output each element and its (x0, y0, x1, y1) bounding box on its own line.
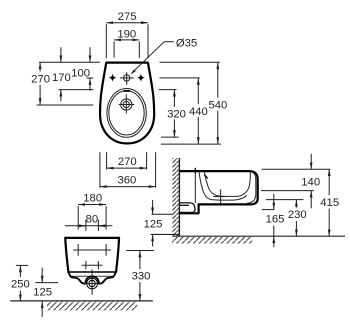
svg-text:320: 320 (167, 108, 186, 120)
svg-text:190: 190 (117, 29, 136, 41)
dim 330 upper segment (139, 251, 141, 270)
dim 190 line (114, 39, 139, 41)
svg-text:170: 170 (52, 72, 71, 84)
bottom extension line inner-left (270) (106, 152, 108, 169)
front view bottom edge (68, 271, 116, 273)
dim 440 lower segment (197, 117, 199, 144)
dim 415 upper segment (328, 169, 330, 195)
faucet hole circle (124, 75, 130, 81)
dim 250 upper segment (19, 265, 21, 277)
side floor hatching (172, 237, 253, 244)
fixing hole right (4-point star) (138, 75, 144, 81)
dim 165 mid segment (273, 226, 275, 237)
dim 125 (wall) upper arrow (152, 200, 154, 214)
dim 360 line (100, 186, 156, 188)
wall hatching (172, 158, 179, 237)
side floor line left of wall (151, 233, 180, 235)
drain cross vertical (side view) (220, 189, 222, 204)
dim 330 extension line (126, 250, 154, 252)
drain cap horizontal centerline (84, 283, 99, 285)
svg-text:100: 100 (71, 68, 90, 80)
dim 330 lower segment (139, 282, 141, 301)
svg-text:Ø35: Ø35 (176, 38, 197, 50)
dim 140 upper arrow (310, 154, 312, 169)
front view right side (116, 238, 119, 272)
dim 165 lower arrow (273, 236, 275, 247)
svg-text:275: 275 (118, 11, 137, 23)
side floor line (173, 235, 345, 237)
bowl rim inner ellipse (109, 91, 144, 135)
svg-text:180: 180 (83, 192, 102, 204)
svg-text:250: 250 (11, 279, 30, 291)
skirt inner edge line (71, 275, 114, 277)
dim 275 extension line right (147, 24, 149, 58)
wall line (178, 158, 180, 237)
svg-text:270: 270 (118, 156, 137, 168)
dim 180 extension left (77, 206, 79, 230)
drain cap vertical centerline (91, 269, 93, 295)
svg-text:125: 125 (33, 286, 52, 298)
dim 275 line (106, 22, 148, 24)
drain target outer circle (121, 99, 132, 110)
svg-text:230: 230 (288, 209, 307, 221)
svg-text:270: 270 (31, 73, 50, 85)
dim 540 lower segment (217, 111, 219, 144)
left extension stub at faucet level (87, 77, 94, 79)
dim 80 left arrow (78, 225, 86, 227)
svg-text:440: 440 (189, 106, 208, 118)
dim 170 lower arrow (60, 90, 62, 102)
dim 270 (left) lower segment (39, 85, 41, 105)
dim 270 (bottom) line (107, 167, 147, 169)
svg-text:165: 165 (266, 214, 285, 226)
callout leader tail (164, 41, 174, 43)
right extension line at bowl-top level (159, 89, 177, 91)
dim 250 extension stub (16, 264, 28, 266)
inner front face line (247, 172, 256, 204)
supply pipe vertical line (194, 173, 196, 203)
trap cover inner line (180, 204, 189, 206)
left extension line at top edge level (39, 61, 100, 63)
overflow slanted tick (204, 175, 208, 179)
dim 440 upper segment (197, 78, 199, 104)
dim 190 extension line left (113, 41, 115, 57)
drain target horizontal centerline (119, 104, 134, 106)
dim 125 (front) extension line (35, 282, 58, 284)
dim 415 lower segment (328, 209, 330, 237)
front floor line (10, 300, 153, 302)
fixing holes upper rail line (73, 249, 111, 251)
front floor hatching (47, 302, 137, 311)
waterline tick (thick dash at bowl top) (124, 90, 130, 92)
right extension line at body-bottom level (161, 143, 221, 145)
dim 100 upper arrow (89, 47, 91, 62)
faucet hole horizontal centerline (120, 77, 134, 79)
svg-text:330: 330 (132, 271, 151, 283)
bidet body outline (plan view) (100, 63, 154, 144)
extension line at trap level (165 top) (262, 209, 274, 211)
dim 270 (left) upper segment (39, 62, 41, 71)
fixing hole upper-right tick (105, 244, 107, 256)
dim 80 right arrow (98, 225, 106, 227)
bottom extension line far-left (360) (99, 152, 101, 188)
basin channel front line (204, 171, 250, 196)
drain target vertical centerline (125, 94, 127, 113)
faucet hole tick (side view) (194, 168, 196, 174)
basin channel rear line (199, 171, 247, 200)
dim 165 upper arrow (273, 194, 275, 210)
left extension line at drain level (37, 104, 94, 106)
svg-text:80: 80 (86, 213, 99, 225)
right extension line at faucet level (160, 77, 200, 79)
dim 230 lower segment (295, 221, 297, 236)
faucet hole vertical centerline (126, 72, 128, 85)
svg-text:140: 140 (301, 176, 320, 188)
dim 80 line (65, 225, 113, 227)
dim 80 extension right (97, 220, 99, 231)
bottom extension line inner-right (270) (146, 152, 148, 169)
trap cover (side view) (180, 203, 195, 213)
dim 180 line (78, 204, 106, 206)
dim 170 upper arrow (60, 47, 62, 62)
bottom extension line far-right (360) (155, 152, 157, 188)
extension line at rim level (262, 168, 331, 170)
dim 190 extension line right (138, 41, 140, 57)
fixing hole left (4-point star) (110, 75, 116, 81)
small hole right tick (97, 261, 99, 269)
bowl rim outer ellipse (107, 89, 146, 138)
right extension line at top edge level (160, 61, 220, 63)
dim 540 upper segment (217, 62, 219, 98)
svg-text:360: 360 (117, 175, 136, 187)
extension line at drain level (230 top) (266, 199, 303, 201)
dim 320 upper segment (173, 90, 175, 107)
drain cross horizontal (side view) (213, 196, 225, 198)
dim 180 extension right (105, 206, 107, 230)
front view skirt profile (69, 273, 115, 284)
svg-text:415: 415 (320, 197, 339, 209)
right extension line at bowl-bottom level (161, 136, 179, 138)
callout leader line (133, 42, 165, 73)
callout leader arrowhead (130, 69, 136, 74)
dim 80 extension left (85, 220, 87, 231)
dim 125 (front) lower arrow (41, 301, 43, 317)
dim 140 lower arrow (310, 191, 312, 209)
dim 100 lower arrow (89, 78, 91, 91)
dim 275 extension line left (105, 24, 107, 58)
small hole left tick (85, 261, 87, 269)
extension line at supply level (140 bottom) (261, 190, 314, 192)
svg-text:540: 540 (208, 100, 227, 112)
front view left side (65, 238, 68, 272)
drain target inner circle (123, 101, 129, 107)
dim 125 (wall) lower arrow (152, 234, 154, 246)
left extension line at bowl-top level (58, 89, 93, 91)
drain cap outer circle (87, 278, 98, 289)
svg-text:125: 125 (144, 218, 163, 230)
drain cap inner circle (89, 280, 95, 286)
extension line at ledge level (125 wall) (152, 213, 174, 215)
small holes rail line (82, 264, 103, 266)
dim 125 (front) upper arrow (41, 268, 43, 283)
dim 320 lower segment (173, 119, 175, 137)
dim 250 lower segment (19, 291, 21, 302)
bidet body outline (side view) (180, 171, 258, 213)
front view top edge (65, 237, 119, 239)
dim 230 upper segment (295, 200, 297, 208)
fixing hole upper-left tick (77, 244, 79, 256)
